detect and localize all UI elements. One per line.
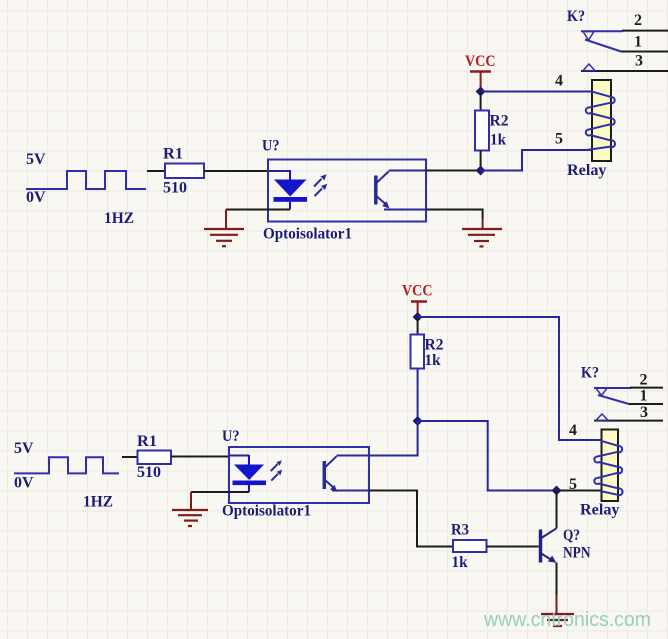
svg-text:0V: 0V xyxy=(14,475,34,492)
wire down to ground (bottom left, dark red) xyxy=(190,492,192,510)
node junction VCC/R2/pin4 (top) xyxy=(476,87,486,97)
op-amp? no: optoisolator U? box (top) xyxy=(268,160,426,222)
svg-text:R1: R1 xyxy=(163,146,183,163)
svg-text:1HZ: 1HZ xyxy=(104,210,134,227)
wire down to ground (top left, dark red) xyxy=(225,210,227,229)
pin 1 wire (top relay) xyxy=(621,51,668,53)
svg-text:3: 3 xyxy=(640,404,648,421)
svg-text:Optoisolator1: Optoisolator1 xyxy=(263,226,352,243)
wire node to relay pin 5 (bottom) xyxy=(557,490,602,492)
svg-text:Optoisolator1: Optoisolator1 xyxy=(222,503,311,520)
phototransistor inside optoisolator (bottom) xyxy=(324,456,369,493)
light emission arrows (top opto) xyxy=(314,174,327,196)
svg-text:1k: 1k xyxy=(452,554,468,571)
svg-text:R1: R1 xyxy=(137,433,157,450)
wire R1 to optoisolator anode (bottom) xyxy=(171,456,229,458)
wire R1 to optoisolator anode (top) xyxy=(204,170,268,172)
svg-text:1: 1 xyxy=(634,34,642,51)
pin 2 wire (bottom relay) xyxy=(594,387,631,389)
svg-text:1HZ: 1HZ xyxy=(83,494,113,511)
node junction R2/collector/pin5 (top) xyxy=(476,166,486,176)
wire junction right-down to pin5 node (bottom) xyxy=(418,421,557,491)
svg-text:K?: K? xyxy=(567,8,585,25)
pin 3 wire (top relay) xyxy=(581,70,668,72)
svg-text:5V: 5V xyxy=(14,440,34,457)
svg-text:0V: 0V xyxy=(26,189,46,206)
svg-text:R2: R2 xyxy=(490,113,509,130)
svg-text:VCC: VCC xyxy=(465,53,496,70)
svg-text:2: 2 xyxy=(634,12,642,29)
ground (top right) xyxy=(462,229,502,246)
NO contact arrow (top relay) xyxy=(583,64,595,71)
wire R2 to junction (top) xyxy=(480,151,482,171)
ground (top left) xyxy=(204,229,244,246)
common contact arrow (top relay) xyxy=(583,32,594,41)
signal source square wave 1HZ (bottom) xyxy=(14,457,119,473)
pin 1 wire (bottom relay) xyxy=(629,403,663,405)
resistor R1 (bottom) xyxy=(138,451,172,465)
svg-text:R2: R2 xyxy=(425,337,444,354)
resistor R2 (top) xyxy=(475,111,489,151)
resistor R2 (bottom) xyxy=(411,335,425,369)
svg-text:www.cntronics.com: www.cntronics.com xyxy=(483,609,651,631)
ground (bottom right) xyxy=(541,614,574,626)
ground (bottom left) xyxy=(172,510,208,526)
svg-text:VCC: VCC xyxy=(402,283,433,300)
pin 3 wire (bottom relay) xyxy=(594,420,663,422)
svg-text:Q?: Q? xyxy=(563,527,580,544)
svg-text:5: 5 xyxy=(555,131,563,148)
pin 2 wire (top relay) xyxy=(581,30,623,32)
wire Q emitter down xyxy=(556,563,558,598)
relay coil winding (top) xyxy=(586,91,615,150)
node junction VCC/R2/pin4 (bottom) xyxy=(413,312,423,322)
svg-text:3: 3 xyxy=(635,53,643,70)
svg-text:K?: K? xyxy=(581,365,599,382)
signal source square wave 1HZ xyxy=(26,171,146,189)
svg-text:1k: 1k xyxy=(490,132,506,149)
transistor Q? NPN xyxy=(541,528,557,563)
svg-text:1k: 1k xyxy=(425,352,441,369)
wire opto emitter right then down to R3 (bottom) xyxy=(369,491,453,547)
svg-text:R3: R3 xyxy=(451,522,469,539)
wire R3 to Q base xyxy=(487,546,539,548)
svg-text:4: 4 xyxy=(569,422,577,439)
svg-text:2: 2 xyxy=(640,372,648,389)
switch armature (top relay) xyxy=(585,40,621,52)
wire junction to relay pin 5 (top) xyxy=(481,150,591,171)
relay coil body (bottom) xyxy=(602,430,619,502)
wire to ground (bottom, dark red) xyxy=(556,595,558,613)
svg-text:4: 4 xyxy=(555,73,563,90)
resistor R1 (top) xyxy=(165,164,204,179)
wire VCC junction down to R2 (bottom) xyxy=(417,317,419,335)
LED inside optoisolator (top) xyxy=(268,170,307,210)
wire junction to relay pin 4 (top) xyxy=(481,91,591,93)
wire junction down-left to opto collector (bottom) xyxy=(369,421,418,456)
svg-text:NPN: NPN xyxy=(563,545,591,562)
common contact arrow (bottom relay) xyxy=(596,388,607,395)
svg-text:510: 510 xyxy=(137,464,161,481)
light emission arrows (bottom opto) xyxy=(271,460,283,480)
NO contact arrow (bottom relay) xyxy=(596,414,608,420)
wire source to R1 (top) xyxy=(147,170,165,172)
wire to ground (top right, dark red) xyxy=(482,218,484,229)
wire Q collector up to pin5 node xyxy=(556,491,558,529)
svg-text:U?: U? xyxy=(222,428,240,445)
wire emitter to right then down (top) xyxy=(426,210,483,220)
svg-text:1: 1 xyxy=(640,388,648,405)
node junction R2/collector/pin5 (bottom) xyxy=(413,416,423,426)
wire source to R1 (bottom) xyxy=(122,456,138,458)
relay coil winding (bottom) xyxy=(594,441,622,495)
wire R2 down to junction (bottom) xyxy=(417,369,419,422)
wire junction to relay pin 4 (bottom) xyxy=(418,317,602,440)
wire LED cathode to left (top) xyxy=(226,209,290,211)
relay coil body (top) xyxy=(592,80,611,161)
svg-text:5V: 5V xyxy=(26,151,46,168)
wire VCC junction down to R2 (top) xyxy=(480,92,482,111)
wire collector to junction (top) xyxy=(426,170,481,172)
node junction pin5/collector (bottom) xyxy=(552,486,562,496)
svg-text:510: 510 xyxy=(163,180,187,197)
resistor R3 xyxy=(453,540,487,552)
wire LED cathode to left (bottom) xyxy=(191,491,249,493)
svg-text:Relay: Relay xyxy=(567,162,607,179)
switch armature (bottom relay) xyxy=(598,395,629,404)
svg-text:Relay: Relay xyxy=(580,502,620,519)
phototransistor inside optoisolator (top) xyxy=(376,171,427,210)
svg-text:U?: U? xyxy=(262,138,280,155)
optoisolator U? box (bottom) xyxy=(229,447,369,503)
svg-text:5: 5 xyxy=(569,476,577,493)
LED inside optoisolator (bottom) xyxy=(229,455,266,492)
